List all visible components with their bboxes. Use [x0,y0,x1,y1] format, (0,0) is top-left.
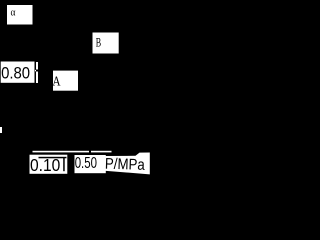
svg-text:0.80: 0.80 [1,64,30,83]
node stray mark left edge [0,127,2,133]
svg-text:0.50: 0.50 [75,155,97,172]
wire x-axis white line [33,151,112,153]
wire y-axis tick segment right of 0.80 box [35,62,38,83]
node 0.50 x-axis tick label box [75,155,106,173]
node A curve label box [52,71,78,91]
node P/MPa x-axis title box [105,153,150,175]
svg-text:α: α [11,6,16,18]
node 0.80 y-axis tick label box [1,62,35,83]
svg-text:A: A [52,74,60,89]
node alpha label box (y-axis title) [7,5,33,25]
svg-text:B: B [96,35,101,49]
node B curve label box [93,33,119,54]
node 0.10 x-axis tick label box [30,155,68,175]
svg-text:P/MPa: P/MPa [105,156,146,174]
svg-text:0.10: 0.10 [30,155,61,175]
